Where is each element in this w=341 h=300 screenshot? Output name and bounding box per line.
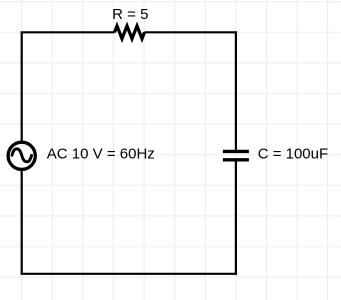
svg-text:R = 5: R = 5 — [112, 6, 148, 23]
resistor value label R = 5 — [112, 6, 148, 23]
capacitor C plates — [223, 151, 249, 159]
capacitor value label C = 100uF — [258, 145, 328, 162]
ac source V1 circle — [8, 142, 35, 169]
wire bottom loop segment (capacitor bottom plate to AC source bottom) — [22, 161, 236, 273]
ac source sine wave — [12, 149, 32, 162]
svg-text:AC 10 V = 60Hz: AC 10 V = 60Hz — [47, 145, 155, 162]
source value label AC 10 V = 60Hz — [47, 145, 155, 162]
resistor R zigzag — [115, 26, 145, 39]
svg-text:C = 100uF: C = 100uF — [258, 145, 328, 162]
wire top-left segment (AC source top to resistor left) — [22, 32, 115, 142]
wire top-right segment (resistor right to capacitor top plate) — [145, 32, 236, 150]
